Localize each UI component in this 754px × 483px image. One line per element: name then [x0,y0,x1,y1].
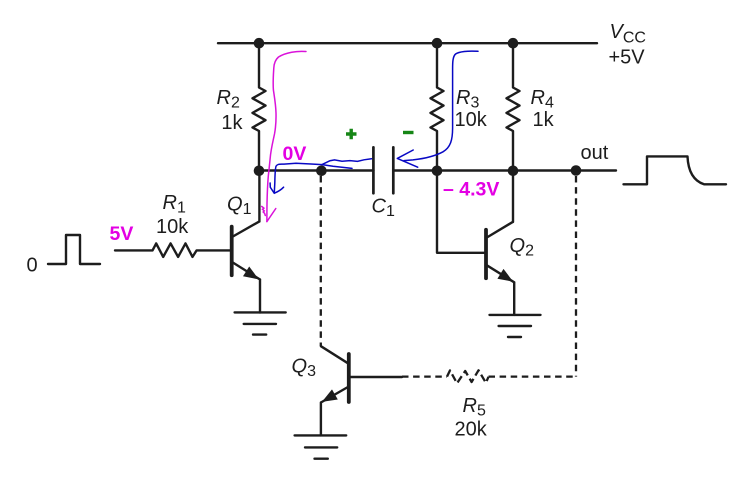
svg-text:5V: 5V [110,223,134,245]
svg-text:+5V: +5V [609,47,646,69]
svg-text:R1: R1 [163,192,186,217]
svg-text:0: 0 [27,255,38,277]
svg-text:C1: C1 [372,196,395,221]
svg-text:Q1: Q1 [227,194,252,219]
svg-text:out: out [581,142,609,164]
svg-text:0V: 0V [283,143,307,165]
svg-text:10k: 10k [156,216,189,238]
svg-text:1k: 1k [533,109,555,131]
svg-text:1k: 1k [221,112,243,134]
svg-text:10k: 10k [455,109,488,131]
svg-text:R5: R5 [463,395,486,420]
svg-text:Q2: Q2 [510,235,535,260]
svg-text:20k: 20k [455,419,488,441]
svg-text:Q3: Q3 [292,356,317,381]
svg-text:– 4.3V: – 4.3V [443,179,499,201]
svg-text:VCC: VCC [610,21,646,47]
svg-text:R2: R2 [217,87,240,112]
